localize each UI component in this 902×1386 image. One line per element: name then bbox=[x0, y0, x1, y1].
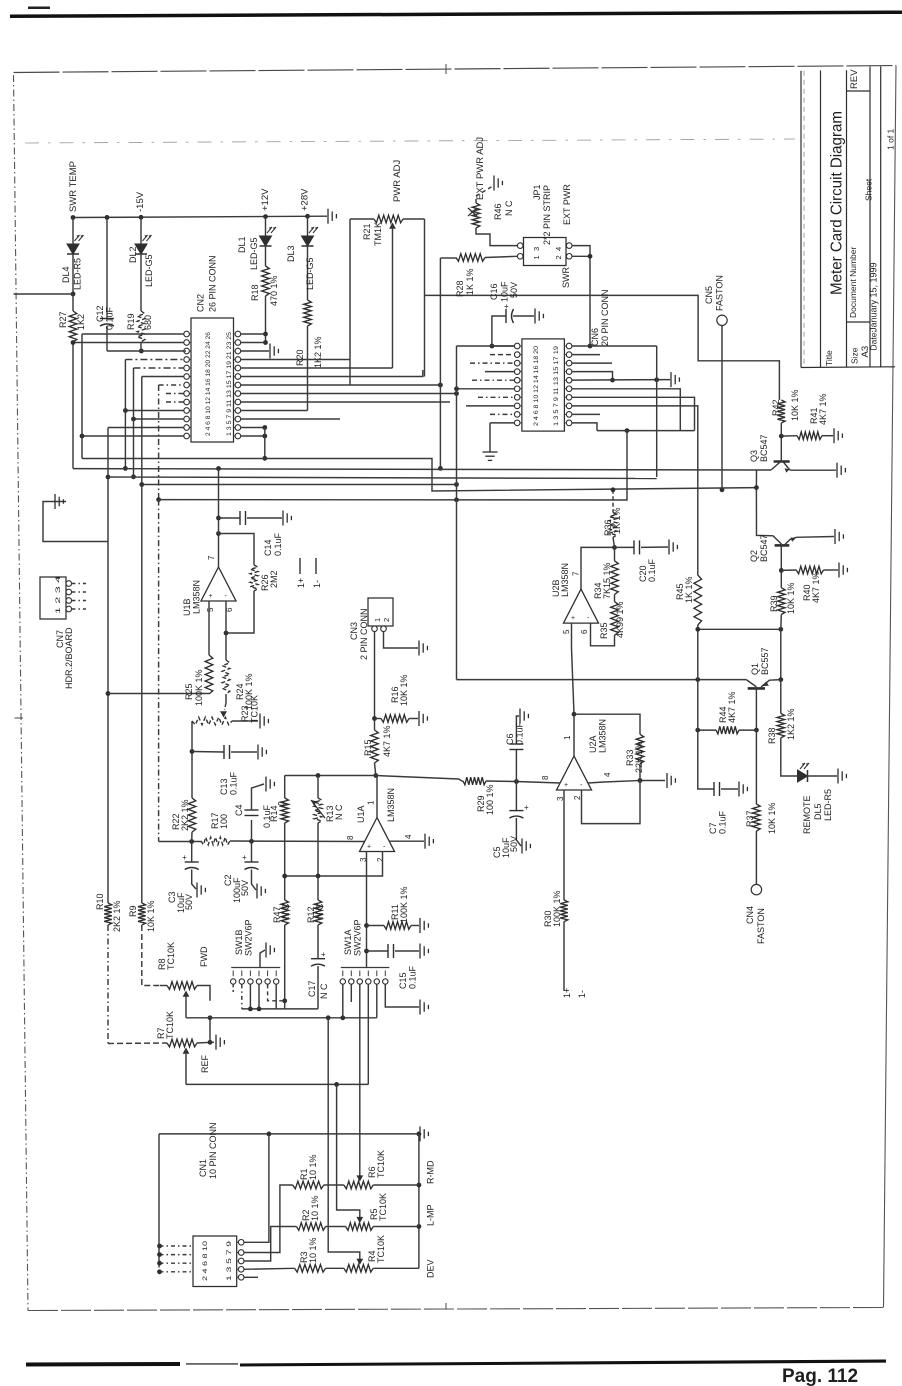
wire CN2 p11L bbox=[134, 418, 185, 420]
connector CN4 FASTON bbox=[751, 884, 761, 894]
svg-text:1 3 5 7 9: 1 3 5 7 9 bbox=[226, 1241, 233, 1281]
LED DL3 bbox=[307, 216, 309, 236]
op-amp U1B LM358N bbox=[201, 567, 236, 601]
svg-text:+: + bbox=[571, 615, 575, 622]
bus wire L4 bbox=[142, 484, 457, 486]
wire SW1A pin3 drop to R6 bbox=[359, 984, 361, 1178]
junction R44 left bbox=[695, 728, 700, 733]
svg-text:Size: Size bbox=[850, 347, 860, 364]
connector CN2 pin circle R7 bbox=[235, 382, 241, 388]
junction U1B C14 tap bbox=[216, 516, 221, 521]
resistor R39 10K 1% bbox=[780, 570, 782, 587]
ground left mid bbox=[54, 494, 56, 509]
svg-text:TC10K: TC10K bbox=[165, 1011, 175, 1039]
wire Q2 Q3 base link bbox=[756, 488, 781, 544]
svg-text:4: 4 bbox=[404, 834, 413, 839]
svg-text:R28: R28 bbox=[455, 280, 465, 297]
junction pin4 R33 bbox=[638, 778, 643, 783]
svg-text:C16: C16 bbox=[489, 283, 499, 300]
svg-text:-15V: -15V bbox=[135, 191, 146, 212]
resistor R37 10K 1% bbox=[755, 730, 757, 804]
svg-text:C12: C12 bbox=[95, 305, 105, 322]
connector CN6 pin circle L8 bbox=[514, 403, 520, 409]
svg-text:4K7 1%: 4K7 1% bbox=[818, 393, 828, 425]
connector CN6 pin circle R6 bbox=[566, 386, 572, 392]
wire CN1 p3 route bbox=[244, 1185, 293, 1253]
connector CN6 pin circle L7 bbox=[514, 395, 520, 401]
wire CN6 l6 bbox=[457, 388, 515, 390]
svg-text:DL2: DL2 bbox=[128, 246, 138, 263]
svg-text:+12V: +12V bbox=[260, 188, 271, 211]
connector CN2 pin circle L1 bbox=[184, 331, 190, 337]
svg-text:1K 1%: 1K 1% bbox=[465, 268, 475, 295]
svg-text:CN5: CN5 bbox=[704, 286, 714, 304]
svg-text:U1B: U1B bbox=[182, 598, 192, 616]
svg-text:1 2 3 4: 1 2 3 4 bbox=[55, 576, 62, 614]
svg-text:U2A: U2A bbox=[588, 735, 598, 753]
connector CN2 pin circle L13 bbox=[184, 433, 190, 439]
svg-text:1K 1%: 1K 1% bbox=[612, 507, 622, 534]
svg-text:4K7 1%: 4K7 1% bbox=[727, 691, 737, 723]
svg-text:N C: N C bbox=[319, 983, 329, 999]
wire CN6 m3 stub bbox=[572, 362, 612, 364]
svg-text:R19: R19 bbox=[126, 313, 136, 330]
junction R18 CN2 pin2 bbox=[263, 340, 268, 345]
wire CN6 l5 stub bbox=[472, 379, 515, 381]
junction CN5 bus bbox=[720, 487, 725, 492]
LED DL4 bbox=[72, 218, 74, 245]
resistor R3 10 1% bbox=[295, 1265, 326, 1273]
junction rail DL1 bbox=[263, 214, 268, 219]
resistor R45 1K 1% bbox=[694, 575, 702, 625]
wire CN2 p5L bbox=[134, 367, 185, 369]
capacitor C4 0.1uF bbox=[251, 820, 253, 841]
wire U1B out to bus L2 bbox=[218, 469, 220, 534]
svg-text:R18: R18 bbox=[250, 284, 260, 301]
svg-text:0: 0 bbox=[277, 801, 287, 806]
capacitor C13 0.1uF bbox=[192, 751, 224, 754]
switch SW1B SW2V6P bbox=[231, 967, 280, 969]
svg-text:10 1%: 10 1% bbox=[308, 1237, 318, 1263]
svg-text:1K 1%: 1K 1% bbox=[684, 576, 694, 603]
svg-text:R10: R10 bbox=[95, 893, 105, 910]
junction pin3 R11 bbox=[364, 923, 369, 928]
connector CN7 pin 1 bbox=[66, 581, 72, 587]
wire FWD bus y1018 bbox=[186, 1017, 377, 1019]
junction M1 C2C4 bbox=[249, 839, 254, 844]
junction R45 R39 bbox=[778, 627, 783, 632]
connector CN1 left dashed stubs bbox=[160, 1245, 194, 1247]
resistor R41 4K7 1% bbox=[781, 435, 797, 437]
wire CN2 p12R bbox=[241, 427, 265, 429]
svg-text:R42: R42 bbox=[771, 399, 781, 416]
junction rail DL3 bbox=[305, 214, 310, 219]
junction R26 pin6 bbox=[224, 631, 229, 636]
op-amp U1A LM358N bbox=[360, 818, 395, 852]
svg-text:R39: R39 bbox=[769, 595, 779, 612]
junction R7 gnd bbox=[208, 1040, 213, 1045]
svg-text:50V: 50V bbox=[509, 282, 519, 298]
svg-text:LED-G5: LED-G5 bbox=[249, 237, 259, 270]
svg-text:Q1: Q1 bbox=[750, 663, 760, 675]
capacitor C15 0.1uF bbox=[367, 950, 389, 952]
connector CN7 pin 3 bbox=[66, 598, 72, 604]
svg-text:TC10K: TC10K bbox=[376, 1235, 386, 1263]
svg-text:22K 1%: 22K 1% bbox=[634, 741, 644, 773]
svg-text:SW1A: SW1A bbox=[343, 929, 353, 955]
connector CN6 pin circle R9 bbox=[566, 412, 572, 418]
svg-text:5: 5 bbox=[206, 607, 215, 612]
svg-text:C7: C7 bbox=[708, 822, 718, 834]
connector CN6 20 PIN CONN body bbox=[522, 339, 565, 431]
svg-text:2 4 6 8 10 12 14 16 18 20 22 2: 2 4 6 8 10 12 14 16 18 20 22 24 26 bbox=[205, 332, 212, 436]
svg-text:50V: 50V bbox=[509, 836, 519, 852]
svg-text:4: 4 bbox=[603, 772, 612, 777]
trimmer R8 TC10K FWD bbox=[160, 985, 167, 987]
wire CN6 l8 stub bbox=[466, 405, 515, 407]
connector CN6 pin circle R4 bbox=[566, 369, 572, 375]
junction v158 L5 bbox=[156, 497, 161, 502]
wire EXT PWR branch bbox=[425, 295, 780, 400]
wire CN1 p1 riser bbox=[244, 1134, 269, 1242]
bus wire L5 bbox=[159, 431, 627, 500]
junction SW1B pin5 R47 bbox=[282, 998, 287, 1003]
svg-text:BC547: BC547 bbox=[759, 534, 769, 562]
connector CN6 pin circle L3 bbox=[514, 360, 520, 366]
wire CN1 p7 route bbox=[244, 1268, 295, 1269]
junction y1018 v328 bbox=[326, 1015, 331, 1020]
trimmer R13 NC bbox=[317, 776, 319, 799]
svg-text:LM358N: LM358N bbox=[560, 563, 570, 597]
svg-text:R9: R9 bbox=[128, 905, 138, 917]
wire Q3 collector bbox=[780, 436, 782, 461]
svg-text:EXT PWR: EXT PWR bbox=[562, 184, 572, 225]
svg-text:1K2 1%: 1K2 1% bbox=[313, 336, 323, 368]
svg-text:N C: N C bbox=[281, 903, 291, 919]
connector CN2 pin circle R5 bbox=[235, 365, 241, 371]
svg-text:CN3: CN3 bbox=[349, 622, 359, 640]
svg-text:Document Number: Document Number bbox=[848, 246, 858, 318]
wire CN3 pin2 ground bbox=[384, 632, 419, 649]
junction v141 L4 bbox=[139, 482, 144, 487]
svg-text:1: 1 bbox=[373, 618, 382, 622]
wire CN6 m1 to v656 bbox=[572, 345, 657, 347]
junction R29 C5 bbox=[514, 779, 519, 784]
riser v264 to L1 bbox=[264, 428, 266, 459]
svg-text:REMOTE: REMOTE bbox=[802, 795, 812, 834]
wire CN6 m7 bbox=[572, 397, 695, 430]
junction l6 bbox=[454, 386, 459, 391]
junction v418 row2 bbox=[417, 1224, 422, 1229]
junction p13R bbox=[262, 434, 267, 439]
junction JP1 tie bbox=[588, 254, 593, 259]
connector CN7 pin 2 bbox=[66, 589, 72, 595]
svg-text:TC10K: TC10K bbox=[166, 942, 176, 970]
svg-text:R27: R27 bbox=[58, 311, 68, 328]
connector CN6 pin circle R1 bbox=[566, 343, 572, 349]
svg-text:+: + bbox=[321, 950, 326, 959]
op-amp U2B LM358N bbox=[564, 589, 599, 623]
ground rail end bbox=[327, 209, 329, 224]
svg-text:Pag. 112: Pag. 112 bbox=[782, 1366, 858, 1386]
wire DL4 to frame bbox=[14, 293, 74, 295]
svg-text:+: + bbox=[182, 853, 187, 862]
wire R47 end join bbox=[284, 1005, 286, 1009]
junction base bus bbox=[754, 485, 759, 490]
svg-text:6: 6 bbox=[580, 629, 589, 634]
capacitor C20 0.1uF bbox=[615, 546, 635, 548]
svg-text:LED-R5: LED-R5 bbox=[73, 258, 83, 290]
connector CN1 pin circle 7 bbox=[238, 1267, 244, 1273]
connector CN6 pin circle R8 bbox=[566, 403, 572, 409]
resistor R26 2M2 feedback bbox=[219, 534, 255, 566]
svg-text:1: 1 bbox=[532, 255, 541, 259]
resistor R29 100 1% bbox=[463, 777, 486, 785]
resistor R28 1K 1% bbox=[440, 257, 456, 259]
junction L2 U1B out bbox=[216, 466, 221, 471]
wire CN6 l3 stub bbox=[470, 362, 515, 364]
junction v418 row1 bbox=[417, 1183, 422, 1188]
connector CN6 pin circle L6 bbox=[514, 386, 520, 392]
svg-text:+28V: +28V bbox=[300, 188, 311, 211]
svg-text:LED-R5: LED-R5 bbox=[823, 789, 833, 821]
capacitor C12 0.1uF bbox=[106, 217, 108, 318]
junction R27 bottom bbox=[71, 340, 76, 345]
svg-text:R35: R35 bbox=[599, 622, 609, 639]
transistor Q3 BC547 bbox=[774, 460, 790, 463]
svg-text:10 1%: 10 1% bbox=[308, 1154, 318, 1180]
svg-text:1 of 1: 1 of 1 bbox=[886, 128, 896, 150]
wire block top line bbox=[159, 1133, 419, 1135]
svg-text:C17: C17 bbox=[307, 980, 317, 997]
wire U1A output bbox=[376, 776, 378, 818]
resistor R10 2K2 1% bbox=[104, 903, 112, 925]
wire SW1A pin5 drop bbox=[376, 984, 378, 1018]
resistor R42 10K 1% bbox=[778, 400, 786, 423]
wire SW1A pin4 drop to y1084 bbox=[367, 984, 369, 1084]
svg-text:50V: 50V bbox=[184, 894, 194, 910]
connector CN6 pin circle L9 bbox=[514, 412, 520, 418]
trimmer R7 TC10K REF bbox=[108, 1042, 167, 1045]
svg-text:4K7 1%: 4K7 1% bbox=[811, 571, 821, 603]
junction Q1line v697 bbox=[695, 677, 700, 682]
schematic frame border bbox=[14, 75, 29, 1311]
svg-text:R15: R15 bbox=[363, 739, 373, 756]
svg-text:0.1uF: 0.1uF bbox=[515, 721, 525, 745]
resistor R40 4K7 1% bbox=[781, 569, 796, 571]
wire R21 left end down bbox=[349, 219, 351, 385]
connector CN1 10 PIN CONN body bbox=[193, 1236, 237, 1287]
wire R35 to pin6 bbox=[591, 623, 615, 646]
wire CN2 p10L bbox=[125, 410, 184, 412]
wire U1A pin2 bbox=[285, 851, 383, 876]
svg-text:N C: N C bbox=[315, 903, 325, 919]
svg-text:Title: Title bbox=[824, 350, 834, 366]
svg-text:7K15 1%: 7K15 1% bbox=[602, 562, 612, 599]
junction DL4 cathode bbox=[71, 292, 76, 297]
junction SW1B bus a bbox=[248, 1007, 253, 1012]
capacitor C7 0.1uF bbox=[698, 730, 714, 789]
trimmer R4 TC10K bbox=[326, 1267, 344, 1269]
connector CN7 pin 4 bbox=[66, 606, 72, 612]
svg-text:SW2V6P: SW2V6P bbox=[244, 919, 254, 956]
svg-text:0.1uF: 0.1uF bbox=[718, 810, 728, 834]
svg-text:2K2 1%: 2K2 1% bbox=[112, 900, 122, 932]
svg-text:LM358N: LM358N bbox=[386, 788, 396, 822]
connector CN1 pin circle 1 bbox=[238, 1240, 244, 1246]
resistor R34 7K15 1% bbox=[614, 547, 616, 560]
svg-text:1 3 5 7 9 11 13 15 17 19 21 23: 1 3 5 7 9 11 13 15 17 19 21 23 25 bbox=[226, 332, 233, 436]
svg-text:+: + bbox=[209, 593, 213, 600]
wire CN6 m4 bbox=[572, 372, 613, 381]
resistor R35 4K99 1% bbox=[614, 595, 616, 602]
svg-text:+: + bbox=[524, 803, 529, 812]
junction R16 tap bbox=[372, 716, 377, 721]
bus riser v125 bbox=[124, 360, 126, 469]
net stub 1+ (CN3 area) bbox=[299, 558, 301, 574]
wire CN3 pin1 down bbox=[374, 632, 376, 719]
junction U2A out fb bbox=[572, 712, 577, 717]
wire U1B output bbox=[218, 534, 220, 568]
svg-text:REV: REV bbox=[849, 69, 860, 89]
connector CN2 pin circle R1 bbox=[235, 331, 241, 337]
svg-text:C6: C6 bbox=[505, 733, 515, 745]
svg-text:N C: N C bbox=[504, 200, 514, 216]
wire CN2 p9L stub bbox=[166, 401, 184, 403]
svg-text:4K7 1%: 4K7 1% bbox=[382, 725, 392, 757]
svg-text:7: 7 bbox=[572, 571, 581, 576]
trimmer R46 NC bbox=[472, 203, 480, 228]
svg-text:2 PIN CONN: 2 PIN CONN bbox=[359, 608, 369, 660]
wire CN6 l10 ground hang bbox=[490, 422, 515, 424]
junction C16 tap bbox=[490, 344, 495, 349]
junction R44 right bbox=[754, 728, 759, 733]
transistor Q1 BC557 bbox=[746, 680, 756, 687]
svg-text:+: + bbox=[367, 844, 371, 851]
svg-text:SW2V6P: SW2V6P bbox=[353, 919, 363, 956]
svg-text:DL5: DL5 bbox=[813, 803, 823, 820]
svg-text:TC10K: TC10K bbox=[378, 1193, 388, 1221]
connector CN2 pin circle L7 bbox=[184, 382, 190, 388]
svg-text:0.1uF: 0.1uF bbox=[647, 558, 657, 582]
wire CN2 p6R bbox=[241, 370, 423, 377]
svg-text:+: + bbox=[564, 782, 568, 789]
svg-text:7: 7 bbox=[207, 555, 216, 560]
trimmer R23 TC10K bbox=[225, 703, 227, 710]
wire v697 to C7 bbox=[697, 680, 699, 731]
connector CN6 pin circle R10 bbox=[566, 420, 572, 426]
junction rail C12 bbox=[105, 215, 110, 220]
capacitor C16 10uF 50V bbox=[492, 345, 520, 347]
bus riser v141 to R9 chain bbox=[141, 377, 143, 485]
svg-text:2: 2 bbox=[376, 857, 385, 862]
wire REF bus y1084 bbox=[186, 1083, 368, 1085]
resistor R19 680 bbox=[137, 311, 145, 342]
svg-text:0.1uF: 0.1uF bbox=[408, 965, 418, 989]
connector CN2 pin circle L3 bbox=[184, 348, 190, 354]
junction v108 y693 bbox=[106, 691, 111, 696]
connector CN6 pin circle L10 bbox=[514, 420, 520, 426]
power rail wire bbox=[73, 216, 327, 217]
title block REV box bbox=[847, 90, 871, 92]
connector CN1 pin circle 3 bbox=[238, 1250, 244, 1256]
svg-text:100: 100 bbox=[219, 814, 229, 829]
connector CN6 pin circle R7 bbox=[566, 395, 572, 401]
svg-text:Sheet: Sheet bbox=[864, 178, 874, 201]
junction R28 L2 bbox=[438, 466, 443, 471]
wire CN5 down to bus bbox=[721, 326, 723, 490]
junction y1018 v210 bbox=[208, 1015, 213, 1020]
wire right bus v418 bbox=[418, 1134, 420, 1268]
connector CN6 pin circle L2 bbox=[514, 352, 520, 358]
svg-text:TC10K: TC10K bbox=[250, 695, 260, 723]
svg-text:0.1uF: 0.1uF bbox=[229, 771, 239, 795]
junction JP1 to CN6 row1 bbox=[588, 344, 593, 349]
connector CN2 pin circle L12 bbox=[184, 425, 190, 431]
connector CN2 pin circle L6 bbox=[184, 374, 190, 380]
connector CN1 pin circle 5 bbox=[238, 1258, 244, 1264]
wire U1A pin4 ground bbox=[389, 840, 424, 842]
svg-text:8: 8 bbox=[346, 835, 355, 840]
svg-text:LED-G5: LED-G5 bbox=[144, 254, 154, 287]
svg-text:2K2 1%: 2K2 1% bbox=[180, 799, 190, 831]
connector CN2 26 PIN CONN body bbox=[191, 318, 234, 442]
svg-text:FASTON: FASTON bbox=[756, 908, 766, 944]
wire CN2 p6L bbox=[142, 376, 184, 378]
connector CN6 pin circle L5 bbox=[514, 377, 520, 383]
svg-text:PWR ADJ: PWR ADJ bbox=[392, 160, 403, 202]
svg-text:SWR: SWR bbox=[561, 267, 571, 288]
wire SW1A pin1 drop bbox=[342, 984, 344, 1018]
wire CN2 p11R stub bbox=[241, 418, 341, 420]
junction p7R bbox=[438, 383, 443, 388]
svg-text:2*2 PIN STRIP: 2*2 PIN STRIP bbox=[542, 185, 552, 245]
resistor R17 100 bbox=[201, 837, 230, 845]
resistor R2 10 1% bbox=[296, 1223, 325, 1231]
svg-text:10K 1%: 10K 1% bbox=[767, 802, 777, 834]
junction v108 L3 bbox=[106, 475, 111, 480]
LED DL2 bbox=[140, 217, 142, 244]
svg-text:3: 3 bbox=[532, 247, 541, 251]
wire CN2 p7L dashed bbox=[159, 384, 184, 386]
wire y693 line bbox=[108, 693, 209, 695]
trimmer R21 TM1K with wiper bbox=[350, 218, 374, 220]
wire U1A pin3 bbox=[366, 851, 368, 968]
svg-text:10 PIN CONN: 10 PIN CONN bbox=[208, 1122, 218, 1179]
junction p13L bbox=[80, 434, 85, 439]
trimmer R6 TC10K bbox=[324, 1184, 344, 1186]
svg-text:10K 1%: 10K 1% bbox=[399, 674, 409, 706]
wire JP1 right pins tie bbox=[572, 246, 590, 346]
wire R28 left down to L2 bbox=[439, 258, 441, 469]
svg-text:8: 8 bbox=[541, 775, 550, 780]
switch SW1A SW2V6P bbox=[341, 967, 390, 969]
wire CN2 p12L bbox=[108, 427, 184, 429]
connector CN2 pin circle L9 bbox=[184, 399, 190, 405]
resistor R11 100K 1% bbox=[367, 925, 385, 927]
faint fold line bbox=[25, 139, 795, 143]
svg-text:Date:: Date: bbox=[869, 330, 879, 350]
junction m4 m5 bbox=[610, 378, 615, 383]
junction y1084 v336 bbox=[334, 1082, 339, 1087]
wire U2A pin4 ground bbox=[588, 781, 665, 784]
junction R39 R40 bbox=[779, 568, 784, 573]
resistor R20 1K2 1% bbox=[304, 300, 312, 326]
svg-text:DL3: DL3 bbox=[286, 245, 296, 262]
connector CN2 pin circle R13 bbox=[235, 433, 241, 439]
svg-text:10K 1%: 10K 1% bbox=[146, 900, 156, 932]
wire U2A pin2 loop bbox=[582, 781, 641, 824]
